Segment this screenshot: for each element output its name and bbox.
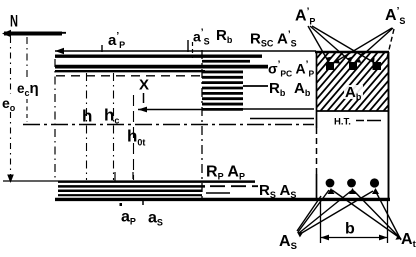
arrow e0 bottom	[7, 175, 14, 184]
svg-text:RSC A’S: RSC A’S	[250, 30, 297, 49]
top dimension line	[55, 50, 316, 52]
bottom fiber extension line	[3, 180, 58, 182]
top rebar squares	[326, 62, 334, 70]
svg-text:σ’PC A’P: σ’PC A’P	[268, 60, 314, 79]
beam bottom steel line 4	[58, 194, 202, 196]
section top edge	[315, 51, 389, 53]
hatch bottom line	[316, 110, 389, 112]
leader to Rs As	[210, 185, 258, 187]
svg-text:h: h	[82, 107, 92, 126]
short dashes under Rp Ap	[206, 192, 230, 194]
dimension line ec-eta (vertical dash)	[26, 37, 28, 122]
tick below bottom edge	[142, 198, 144, 205]
dot below bottom edge	[120, 203, 123, 206]
beam top steel line 2	[55, 65, 268, 69]
beam bottom steel line 3	[58, 189, 202, 192]
vertical extension line2	[86, 73, 88, 180]
centroid axis (horizontal dash-dot)	[23, 124, 314, 126]
dimension line e0 (vertical dash-dot)	[10, 37, 12, 175]
svg-text:N: N	[10, 12, 18, 31]
tick at x=102	[101, 45, 103, 52]
vertical extension line3	[113, 73, 115, 180]
vertical extension line4	[133, 95, 135, 180]
b dimension extension lines	[320, 200, 322, 243]
H.T. dashes	[356, 120, 364, 122]
svg-text:X: X	[139, 77, 149, 94]
compression depth line extension	[243, 108, 314, 110]
b dimension line	[321, 237, 388, 239]
bottom rebar circles	[326, 179, 335, 188]
cross-section hatched compression zone Ab	[254, 45, 416, 115]
beam bottom edge thick line	[55, 198, 390, 201]
svg-text:b: b	[345, 221, 355, 238]
section cut dash-dot vertical	[201, 50, 203, 200]
dash extension a'S	[192, 42, 194, 58]
arrow top-left	[55, 48, 64, 54]
arrowhead triangles under circles	[328, 188, 335, 194]
tick through bottom band 1	[114, 172, 116, 181]
fan lines from A'S	[335, 28, 394, 62]
beam bottom steel line 1	[58, 180, 255, 183]
X arrow line	[138, 109, 202, 111]
section right edge	[388, 52, 390, 198]
vertical extension h line1	[54, 59, 56, 180]
svg-text:H.T.: H.T.	[334, 117, 351, 128]
label Ab inside hatch	[344, 85, 363, 99]
neutral axis line left of section	[250, 118, 314, 120]
tick under X	[143, 93, 145, 103]
fan lines from A'P	[308, 26, 373, 62]
force N line	[2, 30, 66, 37]
beam bottom steel line 2	[58, 185, 205, 188]
tick at x=188	[187, 40, 189, 52]
leader to Rb Ab	[243, 85, 268, 87]
beam top steel line 3	[55, 70, 205, 72]
beam top edge line 1	[55, 55, 262, 58]
beam top steel line 4 (broken)	[56, 75, 200, 77]
tick through bottom band 2	[132, 172, 134, 179]
section left edge	[316, 52, 318, 128]
fan lines from At	[332, 190, 401, 240]
stress block hatch bars	[202, 56, 250, 110]
fan lines from AS	[297, 190, 373, 234]
